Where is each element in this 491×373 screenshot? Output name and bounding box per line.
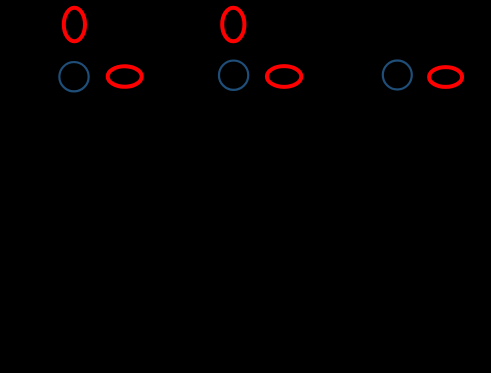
blue circle annotation 3 (right) <box>383 61 412 90</box>
red horizontal ellipse 2 (middle) <box>267 66 301 87</box>
carbonyl oxygen O2 (red vertical ellipse, middle) <box>222 8 244 42</box>
blue circle annotation 1 (left) <box>59 62 88 91</box>
blue circle annotation 2 (middle) <box>219 61 248 90</box>
carbonyl oxygen O1 (red vertical ellipse, left) <box>64 8 85 42</box>
red horizontal ellipse 3 (right) <box>429 67 462 87</box>
red horizontal ellipse 1 (left) <box>108 66 142 87</box>
